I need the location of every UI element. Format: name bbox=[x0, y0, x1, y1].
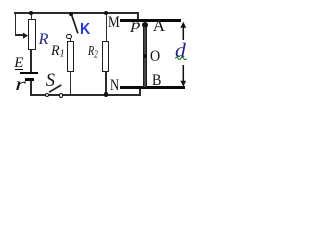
node: junction dot above R bbox=[29, 11, 33, 15]
label R2 bbox=[88, 45, 98, 61]
wire: stub K circle to R1 bbox=[70, 38, 72, 41]
battery E: long plate bbox=[20, 72, 38, 74]
label r bbox=[15, 76, 26, 94]
arrowhead of rheostat wiper bbox=[23, 32, 29, 40]
switch K: contact circle bbox=[66, 34, 71, 39]
wire: stub bottom plate to bottom rail bbox=[139, 89, 141, 95]
label M bbox=[108, 15, 120, 31]
resistor R1 body bbox=[67, 41, 74, 72]
capacitor top plate bbox=[120, 19, 181, 22]
wire: bottom rail bbox=[30, 94, 140, 96]
wire: stub R bottom to battery bbox=[30, 50, 32, 73]
label E bbox=[14, 56, 23, 71]
switch S: lever bbox=[48, 84, 63, 94]
wire: stub R2 top to top rail bbox=[106, 13, 108, 41]
resistor R2 body bbox=[102, 41, 109, 73]
label S bbox=[46, 72, 55, 91]
node: junction dot on top rail at M branch bbox=[104, 11, 108, 15]
label N bbox=[110, 78, 119, 94]
capacitor bottom plate bbox=[120, 86, 185, 88]
trajectory line A to B bbox=[143, 27, 146, 86]
switch S: left contact circle bbox=[45, 93, 50, 98]
d dimension arrow: lower shaft with down arrowhead bbox=[178, 65, 189, 88]
wire: stub battery bottom to bottom rail bbox=[30, 81, 32, 96]
label R1 bbox=[51, 44, 65, 60]
underline of E bbox=[15, 69, 23, 70]
label d (blue) bbox=[175, 41, 186, 61]
wire: left wiper vertical bbox=[15, 12, 17, 36]
battery E: short thick plate bbox=[25, 78, 34, 80]
switch K: junction dot on top rail bbox=[69, 12, 73, 16]
wire: wiper horizontal into rheostat bbox=[15, 34, 25, 36]
wire: stub from top rail to R bbox=[31, 13, 33, 20]
label O bbox=[150, 49, 160, 65]
label R (blue) bbox=[39, 32, 49, 48]
switch S: right contact circle bbox=[59, 93, 63, 97]
wire: stub R1 bottom to bottom rail bbox=[70, 71, 72, 94]
label p bbox=[131, 19, 140, 33]
wire: step down from top rail to top plate bbox=[137, 13, 139, 20]
label A bbox=[153, 17, 165, 34]
particle p at A bbox=[142, 22, 148, 28]
wire: top rail from left corner to capacitor step bbox=[14, 12, 139, 14]
switch K: lever bbox=[70, 14, 82, 35]
d dimension arrow: upper shaft with up arrowhead bbox=[178, 21, 189, 41]
label B bbox=[152, 73, 161, 89]
wire: stub R2 bottom to bottom rail bbox=[105, 72, 107, 95]
node: junction dot on bottom rail bbox=[104, 92, 108, 96]
resistor R (rheostat body) bbox=[28, 19, 36, 50]
green wavy underline under d bbox=[175, 55, 187, 60]
node O dot on trajectory bbox=[143, 54, 147, 58]
label K (blue) bbox=[80, 22, 90, 38]
